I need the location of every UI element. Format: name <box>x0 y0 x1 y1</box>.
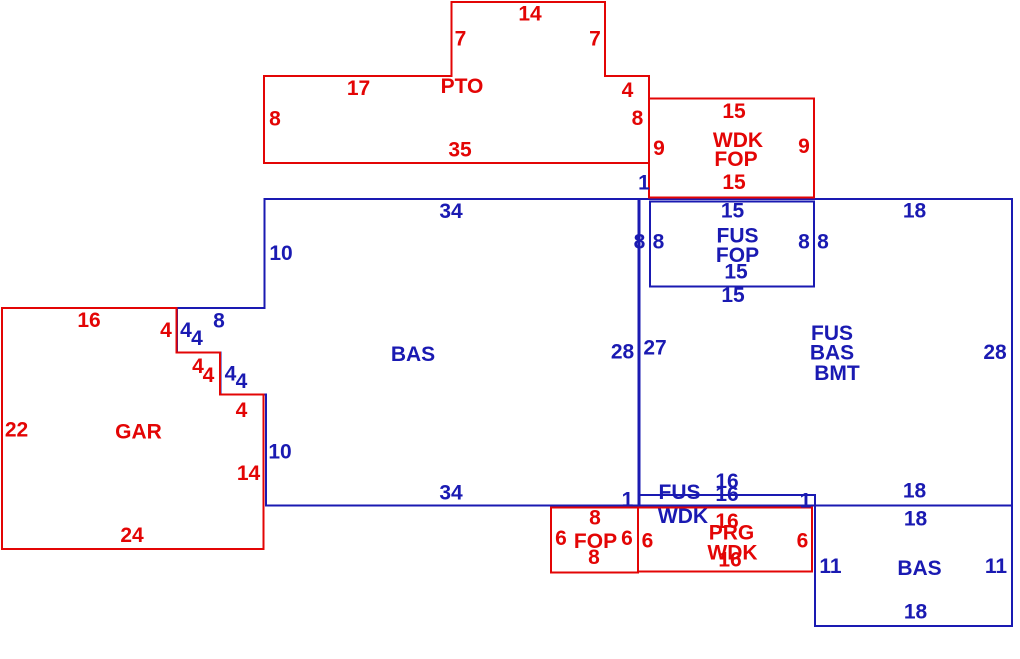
dim 6 PRG WDK left <box>642 530 654 553</box>
dim 6 PRG WDK right <box>797 530 809 553</box>
svg-text:BAS: BAS <box>391 343 435 366</box>
dim 15 FUS FOP top <box>721 200 745 223</box>
dim 4 BAS step 3 (blue) <box>225 363 237 386</box>
dim 1 sliver right <box>800 490 812 513</box>
dim 15 FUS FOP bottom outer <box>721 284 745 307</box>
svg-text:28: 28 <box>611 341 635 364</box>
svg-text:4: 4 <box>236 399 248 422</box>
dim 16 PRG WDK top <box>715 510 738 533</box>
label WDK (sliver) <box>658 505 708 528</box>
dim 4 GAR step 4 (red) <box>236 399 248 422</box>
label BAS (bottom-right rect) <box>897 557 941 580</box>
dim 16 PRG WDK bottom <box>718 549 741 572</box>
dim 8 PTO right side <box>632 107 644 130</box>
svg-text:15: 15 <box>722 100 746 123</box>
label PRG <box>709 522 755 545</box>
svg-text:7: 7 <box>589 28 601 51</box>
svg-text:17: 17 <box>347 77 370 100</box>
svg-text:10: 10 <box>269 242 292 265</box>
dim 7 PTO left of bump <box>455 28 467 51</box>
label FUS (big rect) <box>811 322 853 345</box>
area GAR garage outline (red, staircase on top-right) <box>2 308 264 549</box>
svg-text:18: 18 <box>903 200 927 223</box>
svg-text:6: 6 <box>621 527 633 550</box>
label FOP (blue box) <box>716 244 759 267</box>
dim 18 big rect bottom <box>903 480 927 503</box>
svg-text:GAR: GAR <box>115 421 162 444</box>
svg-text:24: 24 <box>120 524 144 547</box>
dim 4 GAR step 3 (red) <box>203 364 215 387</box>
svg-text:1: 1 <box>638 172 650 195</box>
svg-text:4: 4 <box>160 319 172 342</box>
dim 35 PTO bottom <box>448 139 472 162</box>
svg-text:15: 15 <box>721 284 745 307</box>
svg-text:9: 9 <box>653 137 665 160</box>
svg-text:8: 8 <box>798 231 810 254</box>
dim 16 sliver bottom <box>715 483 738 506</box>
area FUS WDK sliver 16x1 (blue) <box>639 495 816 506</box>
dim 17 PTO upper-left edge <box>347 77 370 100</box>
dim 8 FUS FOP outer-left <box>634 231 646 254</box>
dim 4 GAR step 1 (red) <box>160 319 172 342</box>
svg-text:15: 15 <box>722 171 746 194</box>
dim 4 BAS step 2 (blue) <box>191 327 203 350</box>
dim 6 FOP box left <box>555 527 567 550</box>
dim 28 BAS right <box>611 341 635 364</box>
svg-text:15: 15 <box>724 261 748 284</box>
svg-text:8: 8 <box>588 546 600 569</box>
label FUS (sliver) <box>659 481 701 504</box>
svg-text:4: 4 <box>236 370 248 393</box>
dim 9 WDK FOP left side <box>653 137 665 160</box>
svg-text:7: 7 <box>455 28 467 51</box>
dim 1 jog at top (blue) <box>638 172 650 195</box>
dim 22 GAR left <box>5 419 28 442</box>
dim 27 FUS/BAS/BMT left <box>643 337 666 360</box>
dim 16 GAR top <box>77 309 100 332</box>
dim 18 BAS rect bottom <box>904 601 928 624</box>
dim 4 PTO upper-right edge <box>622 79 634 102</box>
svg-text:WDK: WDK <box>658 505 708 528</box>
svg-text:FOP: FOP <box>714 148 757 171</box>
svg-text:8: 8 <box>634 231 646 254</box>
dim 6 FOP box right <box>621 527 633 550</box>
svg-text:6: 6 <box>797 530 809 553</box>
dim 18 BAS rect top <box>904 508 928 531</box>
label WDK (red box) <box>713 129 763 152</box>
dim 8 FOP box bottom <box>588 546 600 569</box>
area FUS FOP rectangle (blue) <box>650 202 814 287</box>
dim 11 BAS rect left <box>819 555 842 578</box>
svg-text:22: 22 <box>5 419 28 442</box>
svg-text:BMT: BMT <box>814 362 860 385</box>
svg-text:PTO: PTO <box>441 75 484 98</box>
dim 8 FUS FOP inner-left <box>653 231 665 254</box>
dim 14 GAR right <box>237 462 261 485</box>
dim 4 BAS step 4 (blue) <box>236 370 248 393</box>
area PRG WDK box (red) <box>638 508 812 572</box>
svg-text:18: 18 <box>903 480 927 503</box>
dim 8 FOP box top <box>589 507 601 530</box>
area PTO patio outline (red) <box>264 2 649 163</box>
area FOP small box (red) <box>551 508 638 573</box>
dim 15 WDK FOP top <box>722 100 746 123</box>
label GAR <box>115 421 162 444</box>
svg-text:14: 14 <box>518 3 542 26</box>
svg-text:16: 16 <box>715 483 738 506</box>
dim 34 BAS bottom <box>439 482 463 505</box>
svg-text:8: 8 <box>213 310 225 333</box>
dim 15 FUS FOP bottom inner <box>724 261 748 284</box>
dim 16 sliver top <box>715 470 738 493</box>
dim 1 sliver left <box>622 489 634 512</box>
svg-text:8: 8 <box>653 231 665 254</box>
dim 4 GAR step 2 (red) <box>192 355 204 378</box>
dim 14 PTO top <box>518 3 542 26</box>
svg-text:4: 4 <box>622 79 634 102</box>
label BAS (big rect) <box>810 342 854 365</box>
dim 8 FUS FOP inner-right <box>798 231 810 254</box>
svg-text:14: 14 <box>237 462 261 485</box>
dim 15 WDK FOP bottom <box>722 171 746 194</box>
svg-text:8: 8 <box>817 231 829 254</box>
svg-text:11: 11 <box>819 555 842 578</box>
svg-text:15: 15 <box>721 200 745 223</box>
dim 10 BAS lower-left <box>268 441 291 464</box>
dim 18 big rect top <box>903 200 927 223</box>
svg-text:27: 27 <box>643 337 666 360</box>
svg-text:34: 34 <box>439 482 463 505</box>
svg-text:18: 18 <box>904 601 928 624</box>
svg-text:FUS: FUS <box>659 481 701 504</box>
dim 8 BAS notch top <box>213 310 225 333</box>
dim 11 BAS rect right <box>985 555 1008 578</box>
label BMT (big rect) <box>814 362 860 385</box>
dim 8 FUS FOP outer-right <box>817 231 829 254</box>
dim 8 PTO left side <box>269 108 281 131</box>
svg-text:10: 10 <box>268 441 291 464</box>
label PTO <box>441 75 484 98</box>
svg-text:16: 16 <box>77 309 100 332</box>
dim 10 BAS upper-left <box>269 242 292 265</box>
label BAS (main) <box>391 343 435 366</box>
svg-text:8: 8 <box>632 107 644 130</box>
svg-text:11: 11 <box>985 555 1008 578</box>
dim 24 GAR bottom <box>120 524 144 547</box>
label WDK (PRG box) <box>707 542 757 565</box>
svg-text:35: 35 <box>448 139 472 162</box>
svg-text:1: 1 <box>800 490 812 513</box>
svg-text:28: 28 <box>983 341 1007 364</box>
area FUS/BAS/BMT big right rectangle (blue) <box>640 199 1013 506</box>
svg-text:16: 16 <box>718 549 741 572</box>
svg-text:8: 8 <box>589 507 601 530</box>
label FOP (small box) <box>574 530 617 553</box>
area BAS main outline (blue polygon with staircase notch) <box>177 199 639 506</box>
area WDK FOP rectangle (red) <box>649 99 814 198</box>
svg-text:4: 4 <box>191 327 203 350</box>
svg-text:4: 4 <box>203 364 215 387</box>
svg-text:BAS: BAS <box>897 557 941 580</box>
dim 28 big rect right <box>983 341 1007 364</box>
svg-text:8: 8 <box>269 108 281 131</box>
dim 4 BAS step 1 (blue) <box>180 319 192 342</box>
label FOP (red box) <box>714 148 757 171</box>
svg-text:34: 34 <box>439 200 463 223</box>
dim 9 WDK FOP right side <box>798 135 810 158</box>
svg-text:18: 18 <box>904 508 928 531</box>
dim 7 PTO right of bump <box>589 28 601 51</box>
svg-text:6: 6 <box>555 527 567 550</box>
svg-text:9: 9 <box>798 135 810 158</box>
dim 34 BAS top <box>439 200 463 223</box>
label FUS (blue box) <box>717 225 759 248</box>
svg-text:6: 6 <box>642 530 654 553</box>
area BAS bottom-right rectangle (blue) <box>815 506 1012 627</box>
svg-text:1: 1 <box>622 489 634 512</box>
